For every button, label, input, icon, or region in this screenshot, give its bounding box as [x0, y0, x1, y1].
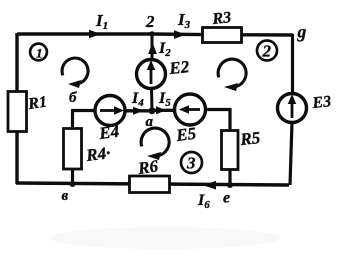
- svg-text:R4·: R4·: [84, 143, 111, 165]
- svg-text:2: 2: [145, 12, 155, 31]
- source E2: [137, 60, 166, 89]
- resistor R1: [8, 92, 27, 132]
- wire row: E4 to node a: [125, 109, 152, 112]
- wire R5 to node e: [228, 169, 231, 186]
- wire left: top corner down to R1: [15, 33, 18, 92]
- node a junction: [149, 107, 156, 114]
- current arrow I2 up stub: [148, 42, 157, 54]
- svg-text:e: e: [223, 190, 230, 207]
- loop 2 direction arrow: [218, 59, 246, 91]
- svg-text:R1: R1: [26, 94, 48, 114]
- loop 2 circled number: [257, 41, 277, 61]
- wire row: node a to E5: [152, 109, 175, 112]
- resistor R5: [222, 131, 239, 170]
- svg-text:E5: E5: [174, 124, 197, 145]
- current arrow I6 on bottom wire: [203, 181, 216, 190]
- loop 3 circled number: [181, 152, 202, 173]
- svg-text:E4: E4: [97, 122, 120, 143]
- source E4: [95, 96, 125, 126]
- source E5: [175, 94, 206, 125]
- wire right: node g down to E3: [291, 34, 294, 94]
- source E3: [278, 94, 307, 123]
- resistor R6: [130, 176, 170, 193]
- scan smudge bottom: [50, 227, 280, 249]
- resistor R4: [64, 129, 82, 170]
- loop 1 circled number: [30, 44, 47, 61]
- resistor R3: [203, 28, 242, 43]
- svg-text:в: в: [62, 188, 69, 204]
- current arrow I5: [156, 106, 166, 114]
- svg-text:R5: R5: [238, 128, 261, 149]
- svg-text:1: 1: [36, 46, 43, 61]
- wire bottom: corner (17,183) to corner (289,185): [16, 183, 289, 185]
- wire left lower: R1 to bottom corner: [15, 131, 18, 184]
- loop 1 direction arrow: [62, 58, 88, 88]
- svg-text:E2: E2: [167, 57, 190, 78]
- svg-text:g: g: [297, 22, 307, 42]
- wire stub node 2 to E2: [151, 34, 154, 60]
- node e junction: [227, 182, 233, 188]
- svg-text:2: 2: [262, 42, 272, 61]
- wire row: E5 to corner then down to R5: [205, 110, 230, 132]
- current arrow I3 on top wire: [174, 30, 186, 39]
- svg-text:3: 3: [186, 154, 196, 173]
- wire top: node corner (17,34) to node g (293,35): [17, 34, 293, 35]
- wire E2 to node a: [150, 88, 154, 111]
- svg-text:б: б: [69, 90, 77, 106]
- current arrow I4: [133, 107, 144, 115]
- wire R4 to node v: [71, 169, 74, 185]
- loop 3 direction arrow: [141, 128, 169, 160]
- svg-text:R3: R3: [211, 9, 232, 28]
- svg-text:R6: R6: [136, 156, 160, 178]
- node v junction: [70, 181, 76, 187]
- wire node b down to R4: [71, 109, 74, 129]
- node 2 junction: [149, 31, 155, 37]
- svg-text:E3: E3: [311, 93, 332, 112]
- wire row: node b to E4: [72, 109, 95, 112]
- wire right lower: E3 to bottom corner: [290, 122, 292, 185]
- current arrow I1 on top wire: [89, 30, 101, 39]
